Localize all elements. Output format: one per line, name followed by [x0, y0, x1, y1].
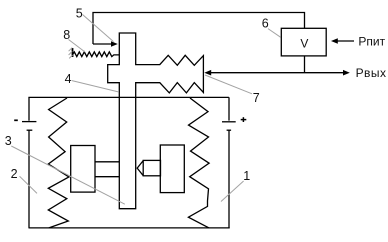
- flapper-lever cross 4/5 with feedback bellows 7 (union outline): [108, 33, 204, 209]
- amplifier U1 (V box): [281, 28, 326, 56]
- right block: [160, 145, 184, 193]
- left contact plates with minus terminal: [22, 121, 36, 123]
- right range spring 1: [188, 98, 209, 228]
- leader to central rod: [11, 146, 125, 204]
- svg-text:5: 5: [76, 7, 83, 21]
- spring 8 zigzag: [73, 52, 120, 57]
- leader to flapper bar: [72, 81, 119, 92]
- svg-text:7: 7: [253, 91, 260, 105]
- svg-text:3: 3: [5, 134, 12, 148]
- svg-text:2: 2: [11, 167, 18, 181]
- leader to bellows plate: [205, 75, 252, 94]
- svg-text:V: V: [300, 37, 308, 51]
- housing left wall upper: [28, 97, 30, 120]
- output line Рвых with arrows both ends: [211, 72, 343, 74]
- svg-text:Рпит: Рпит: [358, 35, 385, 49]
- spring 8 wall anchor: [72, 48, 74, 57]
- left mass block 3: [71, 146, 95, 193]
- leader to nozzle arrow: [83, 15, 114, 42]
- housing right wall lower: [228, 130, 230, 228]
- housing left wall lower: [28, 130, 30, 228]
- svg-text:1: 1: [243, 169, 250, 183]
- anchor hatching: [69, 48, 73, 52]
- svg-text:Рвых: Рвых: [356, 66, 387, 80]
- leader to left spring: [20, 176, 38, 193]
- right contact plates with plus terminal: [222, 121, 236, 123]
- minus sign: [14, 119, 18, 121]
- plus sign: [241, 119, 247, 121]
- plunger stem: [143, 160, 160, 175]
- leader to spring 8: [69, 40, 86, 53]
- wire: feedback line from nozzle to amplifier input: [93, 13, 305, 45]
- housing box bottom edge: [29, 227, 230, 229]
- housing box top edge: [28, 96, 229, 98]
- left block stem to rod: [95, 161, 119, 163]
- housing right wall upper: [228, 97, 230, 120]
- svg-text:6: 6: [262, 17, 269, 31]
- leader to right wall: [221, 181, 244, 202]
- wire: amplifier output down to Pout line: [304, 56, 306, 73]
- svg-text:4: 4: [65, 72, 72, 86]
- plunger cone tip: [137, 161, 143, 176]
- left range spring 2: [48, 98, 69, 228]
- nozzle arrow 5 (points at flapper): [93, 43, 112, 45]
- leader to amplifier: [268, 29, 281, 38]
- supply arrow Рпит: [337, 40, 354, 42]
